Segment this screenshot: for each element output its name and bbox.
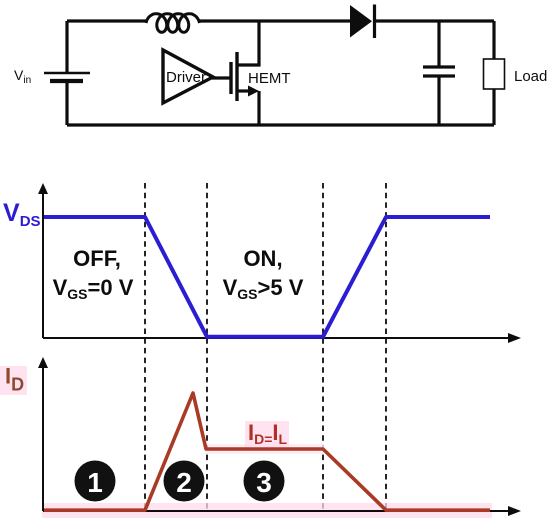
- phase marker circle 1: [75, 461, 116, 502]
- VDS plot y-axis: [42, 192, 44, 338]
- inductor L (coil): [146, 14, 200, 33]
- HEMT channel bar: [235, 52, 238, 101]
- capacitor C top plate: [423, 65, 455, 68]
- dashed timing line t4: [385, 183, 387, 511]
- wire bottom rail: [67, 123, 494, 126]
- dashed timing line t3: [322, 183, 324, 511]
- VDS waveform trace: [44, 217, 490, 337]
- driver U1 triangle: [163, 50, 213, 103]
- svg-text:VDS: VDS: [3, 199, 41, 230]
- ID plot x-axis arrowhead: [508, 506, 521, 516]
- svg-text:VGS>5 V: VGS>5 V: [223, 275, 304, 302]
- HEMT drain wire: [237, 21, 259, 65]
- phase marker circle 3: [244, 461, 285, 502]
- HEMT source lead to bottom rail: [257, 91, 260, 125]
- HEMT gate lead wire: [212, 76, 231, 79]
- svg-text:OFF,: OFF,: [73, 246, 121, 271]
- ID plot y-axis: [42, 366, 44, 511]
- capacitor C lead from top rail: [437, 21, 440, 66]
- ID label pink halo: [0, 366, 27, 395]
- HEMT gate bar: [229, 62, 232, 94]
- ID=IL label pink halo: [245, 421, 289, 447]
- ID plot y-axis arrowhead: [38, 357, 48, 368]
- ID waveform trace: [44, 393, 490, 510]
- VDS plot x-axis: [43, 337, 510, 339]
- dashed timing line t1: [144, 183, 146, 511]
- VDS plot y-axis arrowhead: [38, 183, 48, 194]
- svg-text:ON,: ON,: [243, 246, 282, 271]
- wire top rail right: [375, 19, 494, 22]
- ID plot pink halo plateau: [205, 444, 324, 454]
- ID plot pink halo band bottom: [42, 503, 492, 518]
- dashed timing line t2: [206, 183, 208, 511]
- diode D1 cathode bar: [373, 5, 376, 39]
- capacitor C lead to bottom rail: [437, 76, 440, 125]
- battery Vin short plate: [50, 79, 83, 83]
- load lead from top rail: [492, 21, 495, 59]
- ID plot x-axis: [43, 510, 510, 512]
- svg-text:Driver: Driver: [166, 69, 206, 86]
- HEMT source wire with arrow: [237, 89, 250, 92]
- load R resistor box: [484, 59, 505, 89]
- HEMT source arrowhead: [248, 86, 259, 97]
- wire top rail middle: [200, 19, 350, 22]
- battery Vin source: lead from top rail: [65, 21, 68, 73]
- svg-text:HEMT: HEMT: [248, 70, 291, 87]
- svg-text:2: 2: [176, 467, 192, 498]
- battery Vin long plate: [44, 72, 90, 75]
- svg-text:Vin: Vin: [14, 67, 31, 86]
- svg-text:1: 1: [87, 467, 103, 498]
- svg-text:VGS=0 V: VGS=0 V: [53, 275, 134, 302]
- capacitor C bottom plate: [423, 74, 455, 77]
- svg-text:Load: Load: [514, 68, 547, 85]
- wire top rail left: [67, 19, 146, 22]
- svg-text:3: 3: [256, 467, 272, 498]
- load lead to bottom rail: [492, 89, 495, 125]
- diode D1 triangle: [350, 5, 372, 38]
- phase marker circle 2: [164, 461, 205, 502]
- battery Vin lead to bottom rail: [65, 81, 68, 125]
- VDS plot x-axis arrowhead: [508, 333, 521, 343]
